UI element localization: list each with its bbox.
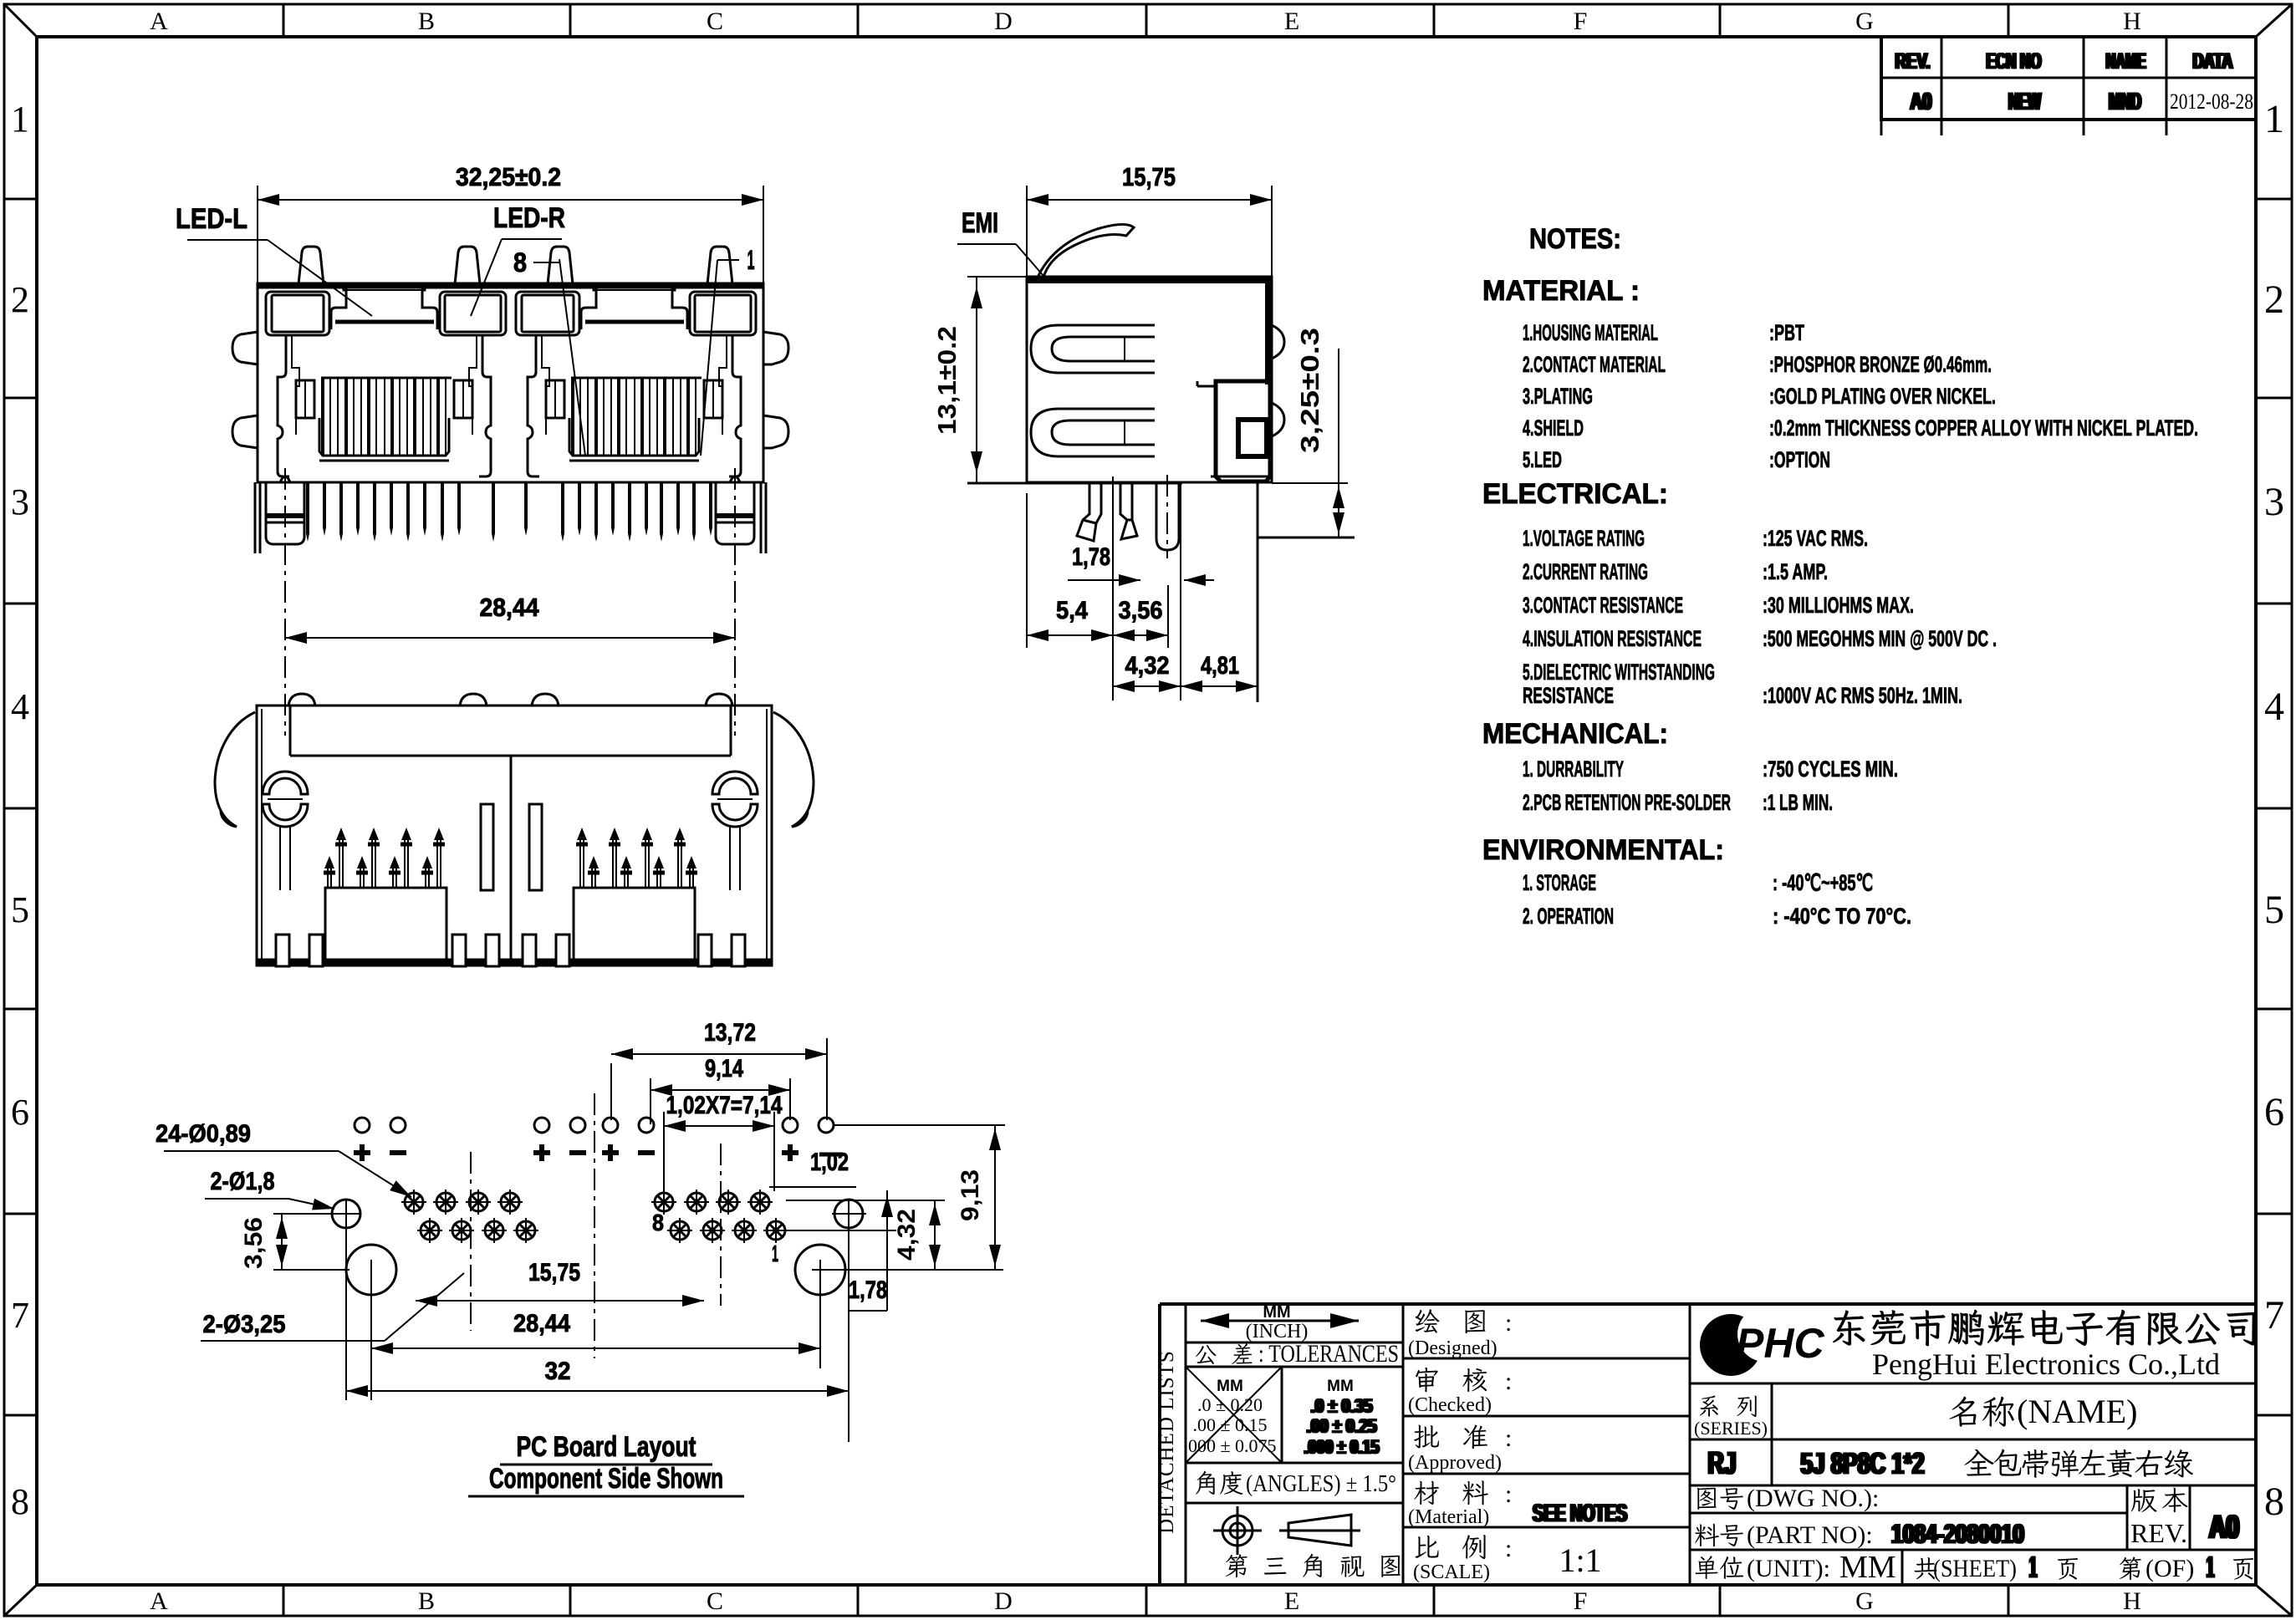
svg-text:: -40°C TO 70°C.: : -40°C TO 70°C. bbox=[1773, 904, 1911, 929]
svg-text:3,56: 3,56 bbox=[1119, 597, 1163, 624]
title block outline bbox=[1160, 1304, 2256, 1585]
RJ45 port at x=318 bbox=[266, 285, 506, 476]
svg-text:7: 7 bbox=[2264, 1293, 2284, 1337]
svg-text::0.2mm THICKNESS COPPER ALLOY: :0.2mm THICKNESS COPPER ALLOY WITH NICKE… bbox=[1769, 415, 2198, 441]
svg-text:(OF): (OF) bbox=[2145, 1555, 2194, 1582]
company header with PHC logo bbox=[1690, 1307, 2256, 1383]
svg-text:(Designed): (Designed) bbox=[1408, 1337, 1498, 1359]
svg-text::: : bbox=[1505, 1368, 1512, 1395]
svg-text:3.PLATING: 3.PLATING bbox=[1523, 384, 1593, 409]
pcb dim 32 bbox=[346, 1228, 849, 1400]
svg-text:2012-08-28: 2012-08-28 bbox=[2170, 89, 2253, 114]
pin label 1 with leader bbox=[701, 245, 755, 456]
svg-text::30 MILLIOHMS MAX.: :30 MILLIOHMS MAX. bbox=[1763, 593, 1914, 618]
svg-text:DATA: DATA bbox=[2194, 48, 2234, 74]
svg-text:A: A bbox=[150, 1587, 168, 1615]
svg-text:1: 1 bbox=[11, 99, 29, 140]
zone numbers right bbox=[2264, 97, 2284, 1524]
svg-text:B: B bbox=[418, 1587, 435, 1615]
pcb dim 13,72 bbox=[611, 1019, 827, 1120]
svg-text:H: H bbox=[2123, 8, 2141, 35]
label LED-L with leader bbox=[176, 203, 372, 316]
svg-text:1.VOLTAGE RATING: 1.VOLTAGE RATING bbox=[1523, 526, 1645, 551]
pcb contact holes right port bbox=[651, 1190, 788, 1243]
svg-text:1: 1 bbox=[772, 1240, 778, 1266]
svg-text:(Material): (Material) bbox=[1408, 1506, 1489, 1528]
pcb dim 1,02X7=7,14 bbox=[664, 1092, 783, 1191]
left mounting post bbox=[255, 468, 304, 736]
dimension 3,56 side bbox=[1113, 585, 1168, 648]
svg-text:4.SHIELD: 4.SHIELD bbox=[1523, 415, 1584, 441]
pcb label 24-0,89 bbox=[156, 1120, 415, 1202]
units / sheet row bbox=[1696, 1550, 2254, 1585]
svg-text:5.LED: 5.LED bbox=[1523, 447, 1562, 472]
svg-text:4: 4 bbox=[2264, 685, 2284, 729]
svg-text::: : bbox=[1505, 1535, 1512, 1562]
svg-text:REV.: REV. bbox=[2130, 1518, 2187, 1548]
svg-text:MM: MM bbox=[1839, 1550, 1896, 1585]
svg-text:Component Side Shown: Component Side Shown bbox=[489, 1463, 723, 1495]
svg-text:2.CONTACT MATERIAL: 2.CONTACT MATERIAL bbox=[1523, 352, 1666, 377]
svg-text:2.CURRENT RATING: 2.CURRENT RATING bbox=[1523, 559, 1648, 584]
pcb contact holes left port bbox=[401, 1190, 538, 1243]
pcb dim 3,56 bbox=[240, 1214, 350, 1270]
svg-text::: : bbox=[1505, 1424, 1512, 1452]
side view right leg bbox=[1258, 483, 1355, 702]
svg-text:.000 ± 0.15: .000 ± 0.15 bbox=[1305, 1436, 1380, 1459]
svg-text:MM: MM bbox=[1263, 1303, 1290, 1322]
svg-text:G: G bbox=[1855, 1587, 1874, 1615]
dimension 5,4 side bbox=[1027, 493, 1113, 648]
svg-text:ECN NO: ECN NO bbox=[1987, 48, 2043, 74]
rear view left screw clip bbox=[263, 772, 308, 890]
svg-text:G: G bbox=[1855, 8, 1874, 35]
svg-text:C: C bbox=[707, 8, 723, 35]
svg-text:2-Ø3,25: 2-Ø3,25 bbox=[203, 1311, 286, 1338]
svg-text:5.DIELECTRIC WITHSTANDING: 5.DIELECTRIC WITHSTANDING bbox=[1523, 660, 1715, 685]
pcb row reference lines bbox=[435, 1200, 786, 1201]
zone letters top bbox=[150, 8, 2141, 35]
svg-text:1:1: 1:1 bbox=[1559, 1541, 1601, 1579]
svg-text::: : bbox=[1505, 1480, 1512, 1508]
svg-text:5,4: 5,4 bbox=[1056, 597, 1088, 624]
svg-text:: TOLERANCES: : TOLERANCES bbox=[1258, 1340, 1399, 1368]
tolerance panel mm/inch row bbox=[1186, 1303, 1403, 1342]
pcb LED holes bbox=[355, 1118, 834, 1133]
svg-text:2. OPERATION: 2. OPERATION bbox=[1523, 904, 1614, 929]
pcb mounting holes 3,25 bbox=[346, 1245, 1003, 1400]
side view pin 1 with bent tip bbox=[1077, 483, 1101, 541]
rear view right wire curl bbox=[773, 712, 814, 827]
svg-text:28,44: 28,44 bbox=[480, 593, 540, 622]
svg-text:MATERIAL :: MATERIAL : bbox=[1482, 275, 1640, 307]
svg-text:A: A bbox=[150, 8, 168, 35]
svg-text:NOTES:: NOTES: bbox=[1529, 223, 1621, 255]
svg-text:(SHEET): (SHEET) bbox=[1933, 1555, 2017, 1582]
svg-text:1: 1 bbox=[2031, 1550, 2038, 1584]
svg-text:4.INSULATION RESISTANCE: 4.INSULATION RESISTANCE bbox=[1523, 626, 1702, 651]
svg-text:2: 2 bbox=[2264, 278, 2284, 322]
svg-text:8: 8 bbox=[2264, 1480, 2284, 1524]
svg-text:F: F bbox=[1574, 8, 1588, 35]
svg-text:MND: MND bbox=[2110, 89, 2143, 115]
svg-text:6: 6 bbox=[2264, 1090, 2284, 1134]
svg-text:(Approved): (Approved) bbox=[1408, 1452, 1502, 1474]
svg-text:.0 ± 0.20: .0 ± 0.20 bbox=[1197, 1394, 1263, 1415]
svg-text:(SCALE): (SCALE) bbox=[1413, 1561, 1490, 1583]
rear view right pin block bbox=[574, 828, 697, 964]
svg-text::1000V AC RMS 50Hz. 1MIN.: :1000V AC RMS 50Hz. 1MIN. bbox=[1763, 683, 1962, 708]
side view pin 2 with bent tip bbox=[1120, 483, 1137, 539]
svg-text:9,14: 9,14 bbox=[705, 1055, 743, 1083]
svg-text:1: 1 bbox=[747, 245, 755, 275]
svg-text:5J 8P8C 1*2: 5J 8P8C 1*2 bbox=[1802, 1446, 1926, 1480]
svg-text:PC Board Layout: PC Board Layout bbox=[517, 1431, 696, 1463]
svg-text:: -40℃~+85℃: : -40℃~+85℃ bbox=[1773, 870, 1873, 895]
svg-text:13,1±0.2: 13,1±0.2 bbox=[932, 326, 962, 435]
solder legs below front view bbox=[306, 483, 712, 542]
svg-text:RESISTANCE: RESISTANCE bbox=[1523, 683, 1614, 708]
svg-text:4: 4 bbox=[11, 686, 29, 727]
side view board line bbox=[967, 482, 1182, 485]
zone letters bottom bbox=[150, 1587, 2141, 1615]
front view: dual RJ45 connector, dimension 32,25 bbox=[258, 162, 763, 284]
svg-text:MM: MM bbox=[1327, 1378, 1354, 1395]
pcb dim 28,44 bbox=[371, 1310, 820, 1354]
tolerance header row bbox=[1186, 1340, 1403, 1368]
svg-text:1,02X7=7,14: 1,02X7=7,14 bbox=[666, 1092, 783, 1119]
svg-text:28,44: 28,44 bbox=[513, 1310, 570, 1337]
rear view left wire curl bbox=[215, 712, 255, 827]
svg-text:8: 8 bbox=[11, 1481, 29, 1522]
rear view bottom feet bbox=[276, 935, 745, 966]
pcb centerlines bbox=[470, 1152, 472, 1331]
rear view center slots bbox=[481, 804, 493, 890]
svg-text::500 MEGOHMS MIN @ 500V DC .: :500 MEGOHMS MIN @ 500V DC . bbox=[1763, 626, 1997, 651]
EMI side fingers left bbox=[232, 332, 258, 364]
svg-text:(SERIES): (SERIES) bbox=[1694, 1418, 1768, 1439]
svg-text:(UNIT):: (UNIT): bbox=[1747, 1555, 1830, 1582]
svg-text:EMI: EMI bbox=[962, 207, 998, 239]
notes electrical section bbox=[1482, 478, 1997, 708]
svg-text:1,02: 1,02 bbox=[810, 1149, 849, 1176]
pcb dim 4,32 bbox=[786, 1200, 945, 1270]
dimension 1,78 side bbox=[1068, 476, 1214, 700]
dimension 4,32 side bbox=[1113, 483, 1181, 700]
third angle projection symbols bbox=[1213, 1506, 1360, 1555]
svg-text:C: C bbox=[707, 1587, 723, 1615]
svg-text:4,32: 4,32 bbox=[1125, 652, 1170, 680]
contact springs inside side view bbox=[1031, 325, 1155, 373]
revision table bbox=[1881, 37, 2256, 135]
svg-text:1: 1 bbox=[2264, 97, 2284, 141]
svg-text:.00 ± 0.25: .00 ± 0.25 bbox=[1308, 1415, 1378, 1438]
svg-text:3.CONTACT RESISTANCE: 3.CONTACT RESISTANCE bbox=[1523, 593, 1683, 618]
svg-text:NAME: NAME bbox=[2107, 48, 2147, 74]
pcb label 2-1,8 bbox=[205, 1168, 335, 1215]
pin label 8 with leader bbox=[513, 247, 585, 456]
EMI tabs on top edge bbox=[298, 247, 324, 284]
svg-text::: : bbox=[1505, 1309, 1512, 1337]
svg-text:15,75: 15,75 bbox=[1122, 162, 1176, 191]
svg-text::PBT: :PBT bbox=[1769, 320, 1804, 345]
svg-text:PengHui Electronics Co.,Ltd: PengHui Electronics Co.,Ltd bbox=[1872, 1347, 2220, 1381]
pcb label 2-3,25 bbox=[201, 1273, 464, 1341]
angles row bbox=[1186, 1471, 1403, 1503]
dimension 3,25 right bbox=[1272, 328, 1348, 537]
svg-text:2.PCB RETENTION PRE-SOLDER: 2.PCB RETENTION PRE-SOLDER bbox=[1523, 790, 1731, 815]
svg-text:REV.: REV. bbox=[1896, 48, 1931, 74]
dwg no row bbox=[1690, 1485, 2127, 1513]
svg-text:1084-2080010: 1084-2080010 bbox=[1893, 1519, 2026, 1549]
pcb dim 9,14 bbox=[651, 1055, 790, 1124]
notes mechanical section bbox=[1482, 718, 1898, 815]
svg-text:MM: MM bbox=[1217, 1378, 1243, 1395]
pcb dim 15,75 bbox=[416, 1162, 704, 1312]
svg-text:1. STORAGE: 1. STORAGE bbox=[1523, 870, 1596, 895]
svg-text:(PART NO):: (PART NO): bbox=[1747, 1521, 1873, 1549]
svg-text:32,25±0.2: 32,25±0.2 bbox=[456, 162, 561, 191]
svg-text::750 CYCLES MIN.: :750 CYCLES MIN. bbox=[1763, 757, 1898, 782]
side view rounded post bbox=[1156, 483, 1179, 550]
svg-text:2: 2 bbox=[11, 279, 29, 320]
svg-text:F: F bbox=[1574, 1587, 1588, 1615]
svg-text:(DWG NO.):: (DWG NO.): bbox=[1747, 1485, 1879, 1512]
svg-text:ELECTRICAL:: ELECTRICAL: bbox=[1482, 478, 1668, 510]
svg-text::GOLD PLATING OVER NICKEL.: :GOLD PLATING OVER NICKEL. bbox=[1769, 384, 1996, 409]
svg-text:5: 5 bbox=[2264, 888, 2284, 932]
dimension 28,44 under front view bbox=[285, 593, 735, 644]
svg-text:(Checked): (Checked) bbox=[1408, 1394, 1492, 1416]
svg-text:8: 8 bbox=[513, 247, 527, 278]
pcb dim 9,13 bbox=[833, 1125, 1005, 1270]
svg-text:H: H bbox=[2123, 1587, 2141, 1615]
svg-text:E: E bbox=[1284, 1587, 1299, 1615]
svg-text::1.5 AMP.: :1.5 AMP. bbox=[1763, 559, 1828, 584]
svg-text::OPTION: :OPTION bbox=[1769, 447, 1830, 472]
rev cell bbox=[2127, 1485, 2241, 1550]
PCB latch block bbox=[1197, 381, 1270, 481]
svg-text:A0: A0 bbox=[1911, 89, 1933, 115]
notes material section bbox=[1482, 275, 2198, 472]
pcb layout title bbox=[468, 1431, 744, 1496]
svg-text:1: 1 bbox=[2208, 1550, 2216, 1584]
svg-text:.0 ± 0.35: .0 ± 0.35 bbox=[1312, 1395, 1374, 1418]
svg-text:3,56: 3,56 bbox=[240, 1217, 268, 1269]
svg-text:PHC: PHC bbox=[1736, 1320, 1824, 1367]
svg-text:9,13: 9,13 bbox=[957, 1169, 984, 1221]
part name row bbox=[1690, 1446, 2256, 1485]
label LED-R with leader bbox=[471, 202, 565, 316]
svg-text:LED-R: LED-R bbox=[493, 202, 565, 234]
svg-text:1,78: 1,78 bbox=[849, 1276, 887, 1304]
svg-text:3: 3 bbox=[11, 481, 29, 522]
third angle caption bbox=[1226, 1554, 1247, 1577]
notes environmental section bbox=[1482, 834, 1911, 929]
svg-text:3: 3 bbox=[2264, 480, 2284, 524]
svg-text:.00 ± 0.15: .00 ± 0.15 bbox=[1192, 1414, 1267, 1435]
dimension 13,1 left bbox=[932, 277, 982, 483]
svg-text:13,72: 13,72 bbox=[704, 1019, 756, 1047]
svg-text:5: 5 bbox=[11, 889, 29, 930]
svg-text:3,25±0.3: 3,25±0.3 bbox=[1295, 328, 1324, 453]
svg-text:7: 7 bbox=[11, 1295, 29, 1336]
svg-text:1,78: 1,78 bbox=[1072, 543, 1110, 571]
designed/checked rows bbox=[1403, 1309, 1690, 1583]
rear view left pin block bbox=[324, 828, 446, 964]
svg-text::1 LB MIN.: :1 LB MIN. bbox=[1763, 790, 1833, 815]
svg-text:D: D bbox=[994, 1587, 1013, 1615]
series / name row bbox=[1690, 1383, 2256, 1485]
svg-text:2-Ø1,8: 2-Ø1,8 bbox=[211, 1168, 275, 1195]
svg-text:32: 32 bbox=[545, 1358, 571, 1385]
pcb dim 1,02 bbox=[769, 1149, 893, 1311]
body bottom edge with post notches bbox=[260, 476, 761, 482]
svg-text:MECHANICAL:: MECHANICAL: bbox=[1482, 718, 1668, 750]
pcb LED polarity marks bbox=[354, 1144, 843, 1161]
right mounting post bbox=[716, 468, 766, 736]
svg-text:(NAME): (NAME) bbox=[2017, 1393, 2137, 1430]
rear view right screw clip bbox=[712, 772, 758, 890]
svg-text:1. DURRABILITY: 1. DURRABILITY bbox=[1523, 757, 1624, 782]
svg-text:(ANGLES) ± 1.5°: (ANGLES) ± 1.5° bbox=[1246, 1471, 1396, 1497]
svg-text:SEE NOTES: SEE NOTES bbox=[1534, 1500, 1629, 1527]
svg-text:24-Ø0,89: 24-Ø0,89 bbox=[156, 1120, 251, 1148]
svg-text:15,75: 15,75 bbox=[528, 1259, 580, 1286]
label EMI with leader bbox=[957, 207, 1043, 276]
svg-text:RJ: RJ bbox=[1709, 1446, 1737, 1481]
svg-text:1.HOUSING MATERIAL: 1.HOUSING MATERIAL bbox=[1523, 320, 1658, 345]
svg-text:DETACHED LISTS: DETACHED LISTS bbox=[1156, 1350, 1178, 1534]
svg-text:.000 ± 0.075: .000 ± 0.075 bbox=[1183, 1435, 1276, 1456]
rear view outline bbox=[257, 706, 772, 965]
svg-text:LED-L: LED-L bbox=[176, 203, 247, 235]
svg-text:4,81: 4,81 bbox=[1201, 652, 1239, 680]
svg-text:4,32: 4,32 bbox=[893, 1209, 921, 1261]
dimension 4,81 side bbox=[1181, 652, 1258, 692]
svg-text:E: E bbox=[1284, 8, 1299, 35]
svg-text:ENVIRONMENTAL:: ENVIRONMENTAL: bbox=[1482, 834, 1724, 866]
svg-text:8: 8 bbox=[652, 1210, 664, 1235]
side view body bbox=[967, 277, 1272, 482]
svg-text:6: 6 bbox=[11, 1092, 29, 1133]
zone numbers left bbox=[11, 99, 29, 1522]
right side bumps (EMI fingers edge-on) bbox=[1272, 325, 1284, 359]
RJ45 port at x=617 bbox=[516, 285, 756, 476]
pcb mounting holes 1,8 bbox=[332, 1200, 866, 1442]
rear view top bumps bbox=[288, 694, 315, 706]
svg-text:NEW: NEW bbox=[2010, 89, 2043, 115]
svg-text::PHOSPHOR BRONZE Ø0.46mm.: :PHOSPHOR BRONZE Ø0.46mm. bbox=[1769, 352, 1992, 377]
front view body shield outline bbox=[258, 283, 763, 482]
EMI side fingers right bbox=[763, 332, 788, 364]
svg-text:B: B bbox=[418, 8, 435, 35]
part no row bbox=[1690, 1519, 2256, 1550]
EMI spring finger (side view) bbox=[1037, 224, 1134, 281]
svg-text:D: D bbox=[994, 8, 1013, 35]
side view dimension 15,75 bbox=[1027, 162, 1272, 278]
svg-text:A0: A0 bbox=[2211, 1509, 2241, 1546]
svg-text::125 VAC RMS.: :125 VAC RMS. bbox=[1763, 526, 1868, 551]
tolerance values block bbox=[1183, 1367, 1403, 1463]
